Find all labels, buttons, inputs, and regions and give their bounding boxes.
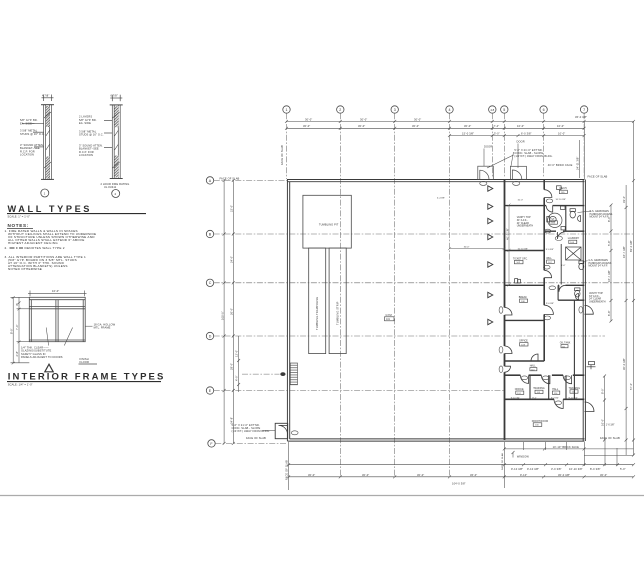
svg-text:FACE OF SLAB: FACE OF SLAB [280,145,284,165]
interior frame elevation [28,291,87,342]
svg-text:E: E [209,389,212,393]
svg-text:TRAINING: TRAINING [533,387,545,390]
svg-text:EA. SIDE—: EA. SIDE— [20,121,35,125]
top dimension line 3 (right portion) [448,134,586,137]
svg-text:UNDERNEATH: UNDERNEATH [589,300,606,303]
svg-text:GYM: GYM [386,313,392,317]
svg-text:TUMBLING PIT: TUMBLING PIT [319,222,339,226]
door D7 left wall into hall [505,366,511,372]
top dimension line 1 [285,120,635,123]
svg-text:F: F [210,442,213,446]
exterior wall: right [583,180,585,442]
svg-text:36'-0 3/8": 36'-0 3/8" [575,115,587,119]
svg-text:7'-4": 7'-4" [494,124,500,128]
svg-text:12'-0": 12'-0" [235,350,239,357]
svg-text:9'-10 3/4": 9'-10 3/4" [569,397,578,399]
tumbling strip lane [329,248,346,354]
svg-text:40'-0" BRICK FACE: 40'-0" BRICK FACE [548,163,573,167]
slab note at top doors [484,140,553,158]
note 1 [5,229,97,245]
svg-text:24'-0": 24'-0" [230,256,234,263]
svg-text:1: 1 [44,191,46,195]
svg-text:8": 8" [15,303,19,306]
svg-text:4: 4 [449,108,451,112]
door number ovals [499,199,583,405]
svg-text:16'-7 3/8": 16'-7 3/8" [622,246,626,258]
exterior door stoop 2 (top) [510,166,526,179]
svg-text:10'-10" BRICK FACE: 10'-10" BRICK FACE [553,445,580,449]
svg-text:FACE OF SLAB: FACE OF SLAB [246,436,266,440]
face of slab label rotated at grid 1 [280,145,284,165]
room label WILL CALL [546,257,554,264]
NOTES heading [7,223,33,228]
face of slab label at grid A [220,177,240,181]
toilet T2 mid [547,217,556,222]
svg-text:30'-0": 30'-0" [464,247,470,249]
svg-text:57'-0": 57'-0" [629,383,633,390]
svg-text:8'-0": 8'-0" [601,388,605,394]
toilet T4 right wall [579,261,584,270]
leaders from slab note to doors [484,144,518,169]
svg-text:STUDS @ 16" O.C.: STUDS @ 16" O.C. [20,132,45,136]
door D5 left wall into break room [505,308,513,316]
svg-text:30'-0": 30'-0" [417,473,424,477]
door D9 exterior right wall mid [585,305,594,314]
svg-text:9'-10": 9'-10" [520,473,527,477]
wall type 1 labels [20,94,49,157]
exterior wall: left [287,180,289,442]
svg-text:NOTED OTHERWISE: NOTED OTHERWISE [8,267,42,271]
right margin dimension texts (rotated) [576,156,634,426]
door D10 wall y=375.2 left opening [520,375,528,383]
interior wall grid-5 (x=504.5) with door openings [504,180,506,440]
frame type mark triangle [45,364,53,372]
svg-text:40'-7 7/8": 40'-7 7/8" [506,228,510,240]
svg-text:NOTES:: NOTES: [8,223,30,228]
grab bar note upper [590,210,614,219]
row grid bubbles A-F [206,177,215,447]
wall y=361 [505,360,544,362]
svg-text:6: 6 [543,108,545,112]
svg-text:(1/4"/FT.) AWAY FROM BLDG.: (1/4"/FT.) AWAY FROM BLDG. [514,154,552,158]
door D4 in wall x=544.2 lower [544,305,553,314]
sheet border bottom [0,495,644,497]
svg-text:6 7/8": 6 7/8" [111,94,118,98]
svg-text:10'-0": 10'-0" [518,200,524,202]
svg-text:5'-0": 5'-0" [620,467,626,471]
svg-text:9'-10 3/4": 9'-10 3/4" [511,397,520,399]
partition x=558 mid toilets [557,285,559,300]
door D8 wall y=231.2 into laundry [558,232,565,239]
room label MECH [559,187,567,194]
svg-text:INTERIOR FRAME TYPES: INTERIOR FRAME TYPES [8,371,166,382]
svg-text:1'-0 3/8": 1'-0 3/8" [606,424,615,427]
door D14 exterior right wall lower [585,402,595,412]
svg-text:6'-8": 6'-8" [607,310,611,316]
svg-text:FACE OF SLAB: FACE OF SLAB [600,436,620,440]
door D11 wall y=375.2 centre opening [541,375,550,384]
lavatory sinks [561,206,581,300]
svg-text:30'-0": 30'-0" [464,124,471,128]
door arc toilet mid-right [559,285,566,292]
svg-text:7'-0": 7'-0" [15,324,19,330]
svg-text:3: 3 [394,108,396,112]
svg-text:2'-8": 2'-8" [15,351,19,357]
svg-text:FACE OF SLAB: FACE OF SLAB [501,453,504,470]
wall type 2 triangle markers along grid 4.8 [488,186,493,325]
svg-text:DENOTES WALL TYPE 2: DENOTES WALL TYPE 2 [25,246,65,250]
column grid leader lines [287,113,585,477]
partition x=566 upper toilets [561,206,566,285]
svg-text:101: 101 [386,318,391,321]
svg-text:SCALE: 1/4" = 1'-0": SCALE: 1/4" = 1'-0" [8,382,33,386]
svg-text:30'-0 3/8": 30'-0 3/8" [558,473,570,477]
svg-text:MTL. FRAME: MTL. FRAME [94,326,111,330]
interior dim texts rooms [437,198,578,400]
svg-text:5: 5 [503,108,505,112]
toilet T1 upper right [570,209,575,218]
turning radius circle toilet room [548,213,562,227]
frame dimension texts (rotated) [9,289,59,356]
svg-text:30'-0 3/8": 30'-0 3/8" [622,358,626,370]
svg-text:LOCATION: LOCATION [79,153,93,157]
frame glazing note + leaders [21,328,73,360]
svg-text:2.: 2. [5,246,8,250]
svg-text:1: 1 [286,108,288,112]
door D12 wall y=375.2 right opening [563,375,572,384]
svg-text:10'-0": 10'-0" [558,131,565,135]
svg-text:10'-10 3/8": 10'-10 3/8" [569,467,583,471]
svg-text:4 7/8": 4 7/8" [42,94,49,98]
svg-text:9'-10 3/8": 9'-10 3/8" [511,467,523,471]
room label HALL [530,365,537,372]
door number ovals at top doors [480,181,520,185]
door number oval bottom-left [291,431,298,435]
wall type 2 mark bubble [112,190,120,198]
room label OFFICE upper [519,340,528,347]
left dimension texts (rotated) [220,205,238,424]
room label FRONT ROOM [532,420,548,427]
small room label TRAINING 2 [569,387,581,394]
door text right lower [606,424,615,427]
svg-text:HALL: HALL [530,365,537,368]
frame leader: hollow metal frame note [85,322,115,329]
bottom dimension texts [246,436,626,486]
svg-text:OFFICE: OFFICE [519,340,528,343]
svg-text:100'-0": 100'-0" [220,311,224,320]
svg-text:BREAK: BREAK [519,296,528,299]
svg-text:WINDOW: WINDOW [517,455,530,459]
slab note bottom-left [232,423,270,433]
svg-text:TUMBLING TRAMPOLINE: TUMBLING TRAMPOLINE [315,297,319,330]
svg-text:4'-4 3/8": 4'-4 3/8" [437,198,445,200]
note 2 [5,246,65,250]
svg-text:(1/4"/FT.) AWAY FROM BLDG.: (1/4"/FT.) AWAY FROM BLDG. [232,429,270,433]
svg-text:MECH.: MECH. [560,187,568,190]
right margin vertical dimension line [580,121,636,456]
room label LAUNDRY [568,237,580,244]
small room partitions [530,375,566,399]
svg-text:8'-0 3/8": 8'-0 3/8" [590,467,601,471]
room tag TLT [550,218,558,225]
wall type 2 detail [104,95,123,179]
svg-text:MOUNT 34" A.F.F.: MOUNT 34" A.F.F. [589,265,609,268]
svg-text:16'-0": 16'-0" [601,419,605,426]
tumbling trampoline lane [309,248,326,354]
svg-text:EA. SIDE: EA. SIDE [79,121,91,125]
svg-text:TRAINING: TRAINING [569,387,581,390]
svg-text:30'-0": 30'-0" [414,117,421,121]
column grid bubbles 1-7 [283,106,588,113]
short dim line at 30'-0 note [448,247,506,250]
svg-text:FACE OF SLAB: FACE OF SLAB [220,177,240,181]
svg-text:C: C [209,281,212,285]
svg-text:HALL: HALL [552,388,559,391]
door D3 in wall x=544.2 into will call [544,270,551,277]
svg-text:9'-4 3/4": 9'-4 3/4" [551,397,559,399]
svg-text:OIL TANK: OIL TANK [560,341,571,344]
interior wall grid-6 (x=544) with door openings [543,180,545,361]
svg-text:FACE OF SLAB: FACE OF SLAB [588,175,608,179]
svg-text:LAUNDRY: LAUNDRY [568,237,580,240]
wall y=285.3 right with door opening [558,284,584,286]
svg-text:PANELS ADJACENT TO DOORS: PANELS ADJACENT TO DOORS [21,355,63,359]
wall y=231.2 [544,230,584,232]
finish floor label [79,357,98,364]
svg-text:4'-0": 4'-0" [235,375,239,381]
svg-text:TLT.: TLT. [550,218,555,221]
svg-text:9'-1": 9'-1" [532,397,537,399]
row grid leader lines [214,180,633,443]
svg-text:WALL TYPES: WALL TYPES [8,204,93,214]
face of slab label right of grid 7 [588,175,608,179]
svg-text:6'-0 3/8": 6'-0 3/8" [521,131,532,135]
svg-text:30'-0": 30'-0" [600,473,607,477]
svg-text:3'-0": 3'-0" [561,265,566,267]
room label BREAK RM [519,296,528,303]
top dimension line 2 [285,127,586,130]
exterior wall: bottom [287,439,584,441]
wall y=204.5 below mech [505,205,585,207]
svg-text:D: D [209,334,212,338]
svg-text:30'-0": 30'-0" [362,473,369,477]
door D13 wall y=399.3 into front room [554,399,563,408]
svg-text:22'-0": 22'-0" [230,205,234,212]
svg-text:4.8: 4.8 [490,108,494,112]
svg-text:5'-8": 5'-8" [607,240,611,246]
svg-text:83'-0 3/8": 83'-0 3/8" [629,240,633,252]
exterior door stoop 1 (top) [478,166,494,179]
bottom-left exterior door vestibule [275,423,288,438]
door hall arc up [531,354,538,361]
svg-text:7: 7 [583,108,585,112]
small room label HALL 2 [552,388,560,395]
svg-text:UL #U411: UL #U411 [104,185,117,189]
svg-text:DOOR: DOOR [517,140,525,144]
svg-text:10'-10 3/8": 10'-10 3/8" [556,199,567,201]
ladder detail on left wall [242,363,298,385]
vanity note lower right [589,292,606,303]
svg-text:30'-0": 30'-0" [360,117,367,121]
door D2 in wall y=204.5 into vanity room [546,206,553,213]
wall type 1 detail [22,95,54,180]
laundry washer/dryer X-boxes [566,247,581,260]
INTERIOR FRAME TYPES title [7,371,165,386]
grab bar note lower [589,259,613,268]
frame left dimension lines [11,296,30,364]
svg-text:33'-0": 33'-0" [622,196,626,203]
svg-text:LOCATION: LOCATION [20,153,34,157]
interior dim line right of grid5 wall [508,204,511,287]
svg-text:UNDERNEATH: UNDERNEATH [517,225,534,228]
drinking fountains [515,279,521,283]
wall y=399.3 with opening [505,398,584,400]
svg-text:SCALE: 1" = 1'-0": SCALE: 1" = 1'-0" [8,214,30,218]
svg-text:WILL: WILL [546,257,552,260]
svg-text:FLOOR: FLOOR [80,360,90,364]
wall y=250.5 [505,250,546,252]
svg-text:10'-10 3/8": 10'-10 3/8" [518,249,529,251]
svg-text:10'-0": 10'-0" [52,289,59,293]
svg-text:10'-0": 10'-0" [557,124,564,128]
room label OIL TANK [560,341,571,348]
svg-text:B: B [209,232,212,236]
svg-text:TICKET OFC.: TICKET OFC. [513,257,528,260]
svg-text:DOOR: DOOR [484,145,492,149]
bottom dimension lines [287,440,635,490]
exterior wall: top [287,180,585,182]
small room label OFFICE [515,388,524,395]
hose bibs right exterior [587,362,596,370]
interior wall x=574 [573,300,575,399]
svg-text:16'-7 3/8": 16'-7 3/8" [607,270,611,282]
svg-text:30'-0": 30'-0" [305,117,312,121]
svg-text:9'-0 3/8": 9'-0 3/8" [546,303,554,305]
svg-text:30'-0": 30'-0" [303,124,310,128]
svg-text:15'-0 3/8": 15'-0 3/8" [462,131,474,135]
svg-text:28'-0": 28'-0" [230,363,234,370]
svg-text:HIGHEST ADJACENT CEILING: HIGHEST ADJACENT CEILING [8,241,58,245]
svg-text:2: 2 [339,108,341,112]
svg-text:24'-11 3/8": 24'-11 3/8" [576,156,580,170]
note 3 [5,255,87,271]
vanity note upper [517,216,534,227]
svg-text:9'-0 3/8": 9'-0 3/8" [546,249,554,251]
door D1 in wall x=544.2 into mech [544,190,552,198]
toilet T3 mid right [575,288,580,297]
svg-text:36'-0": 36'-0" [470,473,477,477]
tumbling pit [303,195,351,248]
svg-text:OFFICE: OFFICE [515,388,524,391]
door D6 left wall into office [505,346,513,354]
room label TICKET OFC [513,257,528,264]
left side vertical dimension lines [223,179,241,445]
svg-text:FACE OF SLAB: FACE OF SLAB [284,460,288,480]
top dimension texts [303,115,587,167]
wall y=285.3 [505,284,546,286]
svg-text:A: A [209,179,212,183]
mech equipment [557,186,562,190]
svg-text:3'-0 3/8": 3'-0 3/8" [551,467,562,471]
wall type 1 mark bubble [41,189,49,197]
wall y=375.2 corridor with openings [505,374,584,376]
svg-text:30'-0": 30'-0" [308,473,315,477]
small room label TRAINING 1 [533,387,545,394]
wall y=320.4 [505,319,545,321]
svg-text:5'-0": 5'-0" [494,131,500,135]
svg-text:FRONT ROOM: FRONT ROOM [532,420,548,423]
svg-text:10'-0": 10'-0" [517,124,524,128]
svg-text:30'-0": 30'-0" [358,124,365,128]
wall type 2 labels [79,94,129,189]
svg-text:104'-0 3/8": 104'-0 3/8" [452,482,466,486]
gym room tag [385,313,395,321]
svg-text:9'-10 3/8": 9'-10 3/8" [527,467,539,471]
svg-text:MOUNT 34" A.F.F.: MOUNT 34" A.F.F. [590,216,610,219]
svg-text:8'-0": 8'-0" [9,328,13,334]
WALL TYPES title [7,204,146,219]
svg-text:26'-0": 26'-0" [230,308,234,315]
svg-text:2: 2 [115,192,117,196]
window tick mark bottom [512,451,515,458]
svg-text:STUDS @ 16" O.C.: STUDS @ 16" O.C. [79,133,104,137]
svg-text:TUMBLING STRIP: TUMBLING STRIP [336,301,340,325]
svg-text:30'-0": 30'-0" [412,124,419,128]
wall y=300.2 right [558,299,584,301]
